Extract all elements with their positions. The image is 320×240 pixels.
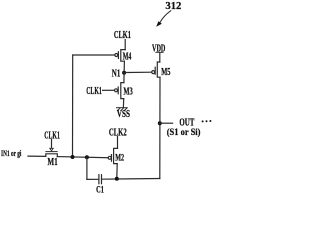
wire branch down to bottom rail — [86, 157, 88, 179]
wire N1 to M5 gate — [124, 71, 152, 73]
wire M1 drain to M2 gate — [57, 157, 108, 158]
wire bottom rail right — [102, 178, 160, 181]
junction dot (branch to C1) — [85, 155, 89, 159]
lead-line arrow to 312 — [160, 11, 171, 23]
svg-text:M1: M1 — [47, 157, 57, 168]
junction dot (left vertical) — [71, 155, 75, 159]
wire CLK1 to M3 gate — [103, 89, 115, 91]
transistor M4 — [115, 50, 125, 62]
wire OUT stub — [160, 122, 173, 124]
ground (VSS) symbol — [117, 108, 128, 111]
node N1 dot — [122, 71, 126, 75]
junction dot (M2 source) — [115, 177, 119, 181]
svg-text:VSS: VSS — [117, 109, 130, 120]
transistor M2 — [108, 148, 117, 163]
wire left vertical (M4 gate to M1 output) — [72, 55, 74, 157]
svg-text:CLK1: CLK1 — [86, 86, 102, 97]
transistor M3 — [115, 83, 124, 99]
svg-text:M3: M3 — [123, 87, 132, 98]
wire right vertical (M5 drain to bottom rail) — [159, 77, 161, 178]
wire M4 gate (horizontal) — [73, 54, 115, 56]
transistor M5 — [152, 62, 160, 77]
wire M3 source to ground — [122, 99, 124, 108]
wire bottom rail left — [87, 178, 99, 180]
ellipsis dots — [202, 120, 212, 122]
svg-text:M2: M2 — [115, 153, 124, 163]
node OUT dot — [158, 121, 162, 125]
svg-text:(S1 or Si): (S1 or Si) — [167, 127, 201, 138]
svg-text:N1: N1 — [112, 68, 121, 79]
svg-text:M5: M5 — [161, 67, 170, 78]
wire VDD to M5 source — [156, 52, 163, 54]
svg-text:IN1 or gi: IN1 or gi — [1, 149, 22, 158]
wire N1 to M3 drain — [123, 73, 125, 83]
wire IN1 to M1 source — [28, 155, 46, 157]
transistor M1 (horizontal) — [46, 140, 58, 157]
wire CLK1 to M4 drain — [124, 40, 126, 50]
svg-text:C1: C1 — [96, 185, 104, 194]
wire M4 drain to node N1 — [123, 61, 125, 72]
svg-text:312: 312 — [165, 0, 181, 12]
svg-text:CLK1: CLK1 — [114, 30, 131, 41]
capacitor C1 — [99, 175, 102, 184]
wire M2 source down — [116, 164, 118, 179]
wire CLK2 to M2 drain — [117, 137, 119, 149]
